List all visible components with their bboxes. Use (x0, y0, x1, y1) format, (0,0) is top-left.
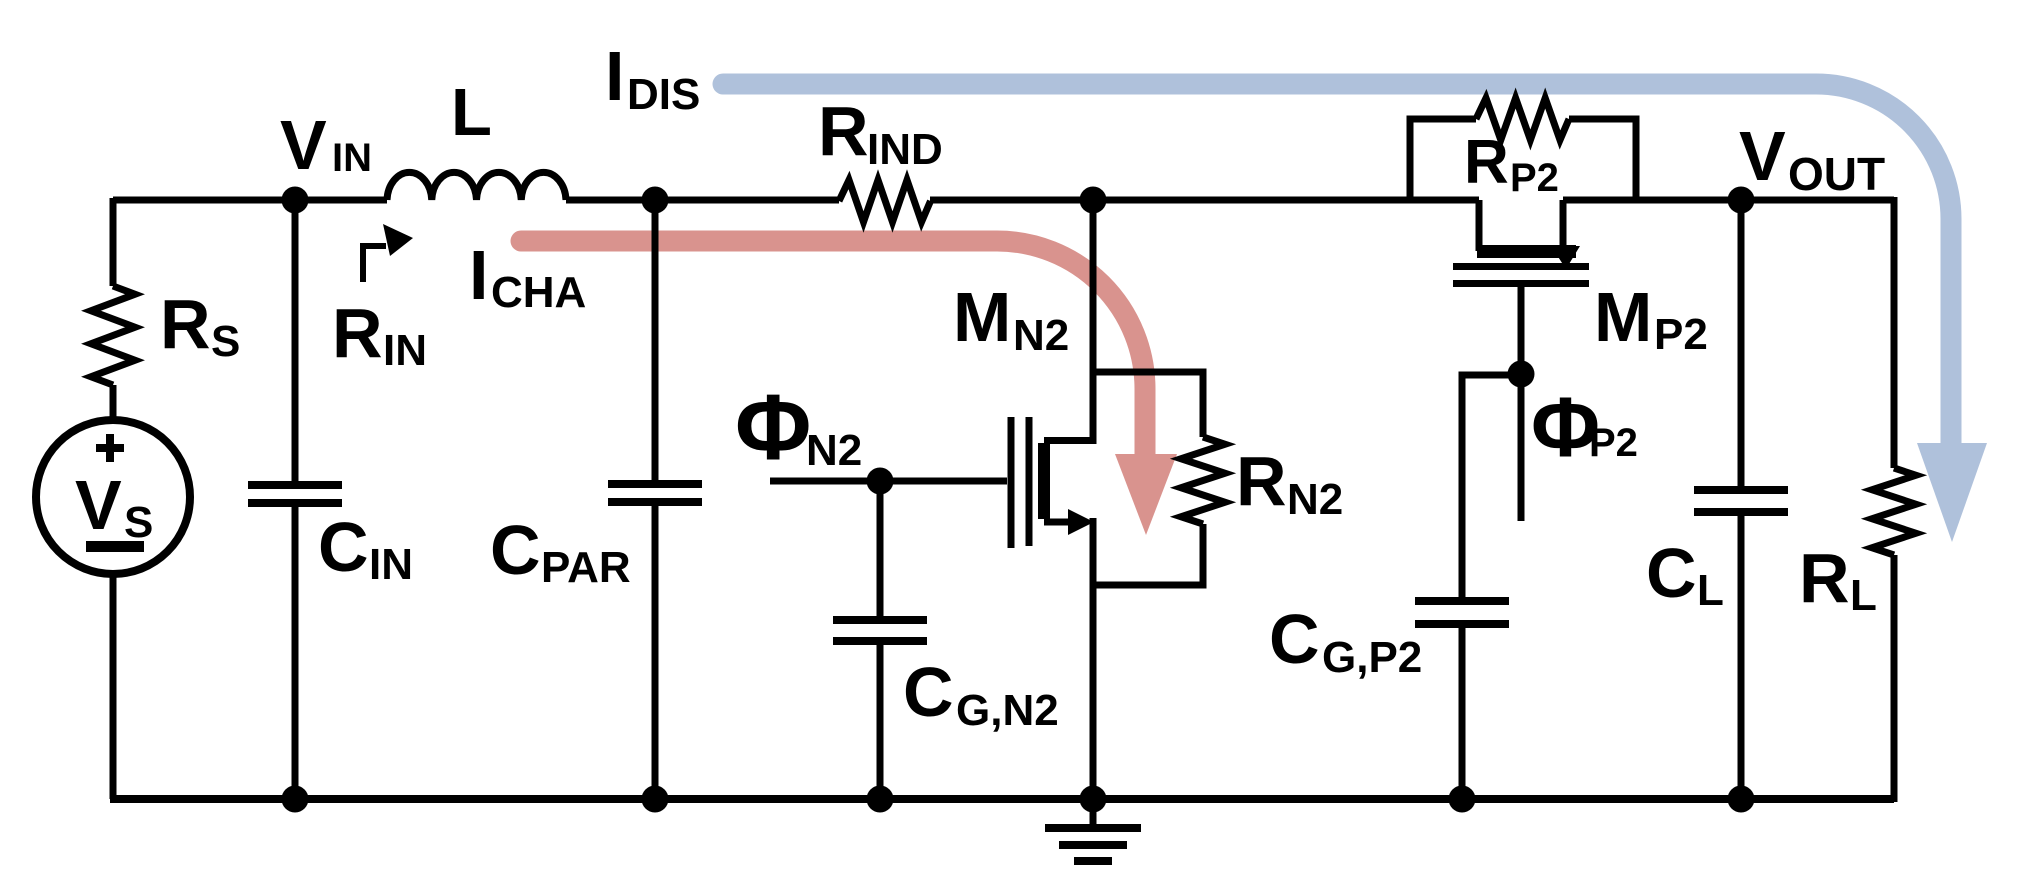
svg-text:CHA: CHA (491, 268, 586, 317)
svg-text:C: C (490, 511, 541, 589)
capacitor CL (1694, 200, 1788, 799)
svg-text:G,P2: G,P2 (1322, 633, 1422, 682)
wire: top rail from RS corner to inductor (113, 197, 387, 204)
capacitor CG,N2 (833, 481, 927, 799)
svg-text:C: C (318, 508, 369, 586)
svg-text:P2: P2 (1510, 156, 1559, 200)
svg-text:N2: N2 (1013, 311, 1069, 360)
svg-text:P2: P2 (1654, 310, 1708, 359)
svg-text:R: R (1464, 128, 1509, 197)
node: CG,N2 ground dot (867, 786, 894, 813)
inductor L (387, 172, 566, 200)
wire: PHI_N2 gate line (770, 478, 1007, 485)
svg-text:Φ: Φ (735, 375, 811, 479)
wire: MN2 source down to ground rail (1090, 518, 1097, 799)
resistor RP2 (parallel loop over MP2) (1410, 98, 1636, 200)
svg-text:N2: N2 (1287, 475, 1343, 524)
svg-text:IN: IN (332, 136, 372, 180)
svg-text:M: M (1594, 278, 1652, 356)
svg-text:L: L (451, 75, 492, 150)
svg-text:C: C (903, 653, 954, 731)
svg-text:S: S (124, 498, 153, 547)
node: CL ground dot (1728, 786, 1755, 813)
voltage source VS (36, 420, 190, 574)
svg-text:S: S (211, 317, 240, 366)
svg-text:L: L (1850, 571, 1877, 620)
RIN sense arrow (363, 224, 413, 282)
wire: inductor to RIND (566, 197, 839, 204)
capacitor CPAR (608, 200, 702, 799)
svg-text:OUT: OUT (1788, 148, 1885, 200)
node VIN junction dot (282, 187, 309, 214)
resistor RN2 (parallel loop) (1093, 372, 1225, 585)
svg-text:IN: IN (383, 326, 427, 375)
capacitor CG,P2 (1415, 375, 1521, 799)
svg-text:R: R (818, 92, 869, 170)
svg-text:V: V (75, 466, 122, 544)
svg-text:L: L (1697, 566, 1724, 615)
wire: MP2 drain to VOUT and RL (1563, 197, 1894, 204)
capacitor CIN (248, 200, 342, 799)
svg-text:IN: IN (369, 540, 413, 589)
svg-text:P2: P2 (1589, 421, 1638, 465)
svg-text:N2: N2 (806, 426, 862, 475)
svg-text:R: R (1236, 442, 1287, 520)
node: CPAR top junction dot (642, 187, 669, 214)
svg-text:R: R (160, 285, 211, 363)
svg-text:I: I (469, 236, 488, 314)
ground rail (bottom) (110, 795, 1894, 803)
wire: RIND to MP2 source (930, 197, 1479, 204)
resistor RIND (839, 180, 931, 222)
svg-text:I: I (605, 37, 624, 115)
svg-text:R: R (332, 294, 383, 372)
svg-text:M: M (953, 278, 1011, 356)
svg-text:V: V (1739, 117, 1786, 195)
node: CPAR ground dot (642, 786, 669, 813)
transistor MN2 (1008, 417, 1097, 548)
svg-text:IND: IND (867, 125, 943, 174)
node: gate junction dot (PHI_N2 / CG_N2) (867, 468, 894, 495)
svg-text:PAR: PAR (541, 543, 631, 592)
svg-text:R: R (1799, 539, 1850, 617)
wire: VS to ground rail (110, 574, 117, 799)
node VOUT dot (1728, 187, 1755, 214)
charge current path I_CHA (red) (521, 241, 1177, 535)
ground symbol (1045, 799, 1141, 861)
node: CIN ground dot (282, 786, 309, 813)
resistor RL (1872, 197, 1916, 802)
discharge current path I_DIS (blue) (723, 84, 1987, 542)
svg-text:C: C (1269, 600, 1320, 678)
node: switching node (MN2 drain) dot (1080, 187, 1107, 214)
svg-text:G,N2: G,N2 (956, 686, 1059, 735)
node: CG,P2 ground dot (1449, 786, 1476, 813)
svg-text:C: C (1646, 534, 1697, 612)
svg-text:DIS: DIS (627, 70, 700, 119)
node: MN2 source ground dot (1080, 786, 1107, 813)
node: MP2 gate junction dot (PHI_P2) (1508, 361, 1535, 388)
transistor MP2 (1453, 200, 1589, 521)
resistor RS (91, 198, 135, 420)
svg-text:V: V (280, 106, 327, 184)
wire: MN2 drain up to switching node (1090, 200, 1097, 444)
